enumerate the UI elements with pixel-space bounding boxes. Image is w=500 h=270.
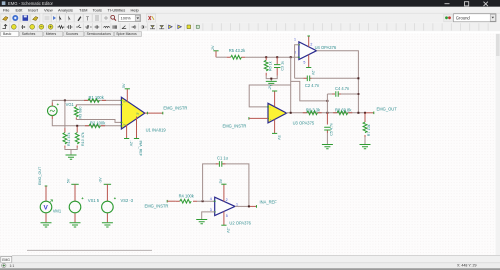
svg-text:U1 INA819: U1 INA819 [146,128,167,133]
svg-text:R1 100k: R1 100k [89,95,105,100]
svg-text:5V: 5V [219,178,223,183]
toolbar row 1 [0,13,500,22]
title bar [0,0,500,7]
U1 REF pin to INA_REF bar [134,117,139,139]
U2 V+ pin to 5V bar [221,184,226,201]
svg-text:1: 1 [236,202,238,206]
U2 V- pin to -2V bar [221,211,226,225]
svg-text:U2 OPA376: U2 OPA376 [229,221,251,226]
cursor tools [59,16,62,21]
svg-text:Sources: Sources [66,32,79,36]
ground under C5 [322,145,333,149]
svg-text:R3 680: R3 680 [78,107,82,119]
wire U2 IN+ to ground [202,212,215,220]
svg-text:R11 47k: R11 47k [67,132,71,146]
U1 V- pin to -2V bar [124,125,129,139]
node junction at C1 left [202,200,204,202]
U3 V- pin to 5V bar [272,120,277,134]
wire EMG_INSTR pin to U3 IN+ [248,117,250,120]
new icon [3,17,9,21]
wire step branch to C4 node [291,81,328,101]
wire U3 feedback loop [249,85,291,107]
svg-text:-2V: -2V [226,227,230,233]
svg-text:Meters: Meters [46,32,57,36]
svg-text:1: 1 [294,38,296,42]
resistor R5 [227,55,246,59]
wire VG1 bottom to U1 IN- [52,119,121,126]
svg-text:INA_REF: INA_REF [139,141,143,157]
op-amp U4 OPA376 [298,42,317,60]
svg-text:R2 100k: R2 100k [90,120,106,125]
node junction at feedback right [248,205,250,207]
svg-text:Ground: Ground [456,16,471,21]
svg-text:5: 5 [226,214,228,218]
wire R6 C3 to ground [266,76,277,82]
svg-text:Analysis: Analysis [58,8,73,13]
svg-text:EMG: EMG [2,258,10,262]
ground under R7 [360,145,371,149]
node junction U3 output [290,112,292,114]
voltage generator VG1 [48,103,59,120]
open icon [12,15,18,21]
svg-text:EMG_INSTR: EMG_INSTR [223,123,247,128]
resistor R6 [264,57,268,76]
resistor R4 [176,199,197,203]
svg-text:TI-Utilities: TI-Utilities [108,8,126,13]
svg-text:EMG_INSTR: EMG_INSTR [163,106,187,111]
wire U4 output down right rail [317,51,359,113]
svg-text:5V: 5V [122,83,126,88]
voltmeter VM1 [40,186,52,222]
svg-text:INA_REF: INA_REF [260,199,278,204]
svg-text:R6 1k: R6 1k [269,61,273,71]
svg-text:2V: 2V [211,45,215,50]
svg-text:File: File [3,8,10,13]
svg-text:2: 2 [310,43,312,47]
svg-text:Help: Help [131,8,140,13]
svg-text:Semiconductors: Semiconductors [87,32,112,36]
svg-text:C2 4.7n: C2 4.7n [305,83,320,88]
svg-text:View: View [44,8,53,13]
U4 V+ pin (to top rail) [308,36,310,47]
ground under VS1 [70,223,81,227]
svg-text:-3V: -3V [99,177,103,183]
svg-text:V: V [44,205,49,212]
node junction bottom wire [76,125,78,127]
ground at U2 IN+ [196,220,207,224]
capacitor C5 [324,113,330,145]
resistor R3 (gain) [74,105,121,123]
op-amp U3 OPA375 [267,103,287,123]
svg-text:R8 69.8k: R8 69.8k [335,107,352,112]
svg-text:VG1: VG1 [66,102,75,107]
U4 pin numbers [294,38,312,65]
svg-text:EMG_OUT: EMG_OUT [38,166,42,185]
wire U4 IN+ loop to C2 [295,45,299,79]
resistor R11 [63,100,67,147]
ground under R11 R10 [65,148,77,159]
svg-text:VM1: VM1 [53,208,62,213]
capacitor C2 [295,76,359,82]
svg-text:In+: In+ [123,100,127,104]
svg-text:1:1: 1:1 [10,264,15,268]
node junction C4/C5 [326,112,328,114]
svg-text:Switches: Switches [22,32,36,36]
resistor R10 [75,127,79,148]
svg-text:T&M: T&M [79,8,87,13]
svg-text:T: T [86,17,89,23]
node junction step wire [326,100,328,102]
node junction on top wire [64,99,66,101]
svg-text:Tools: Tools [93,8,102,13]
wire U1 output [145,112,163,114]
zoom icon [111,15,115,19]
svg-text:R7 10k: R7 10k [367,124,371,136]
wire R4 to U2 IN- [197,200,215,202]
svg-text:Spice Macros: Spice Macros [116,32,137,36]
resistor R9 [303,111,322,115]
voltage source VS1 [69,184,83,222]
svg-text:5: 5 [303,60,305,64]
print icon [33,17,39,21]
svg-text:R5 43.2k: R5 43.2k [229,48,246,53]
svg-text:-2V: -2V [129,141,133,147]
node junction ground stem [270,78,272,80]
svg-text:Basic: Basic [3,32,12,36]
ground selector [444,14,453,22]
resistor R8 [333,111,352,115]
node junction C3 top [276,56,278,58]
U4 V- pin to -2V bar [306,55,311,68]
svg-text:-: - [270,107,271,110]
op-amp U2 OPA376 [214,197,235,215]
wire C1 feedback loop [203,164,249,207]
svg-text:2: 2 [226,198,228,202]
wire U3 output to EMG_OUT [287,112,365,114]
svg-text:EMG_INSTR: EMG_INSTR [145,204,169,209]
status bar [0,263,500,268]
U3 V+ pin to -2V bar [272,91,277,106]
node junction C4 right [357,93,359,95]
svg-text:U3 OPA375: U3 OPA375 [293,121,315,126]
save icon [23,15,29,21]
tab row [0,31,142,36]
svg-text:-2V: -2V [268,84,272,90]
svg-text:VS2 -3: VS2 -3 [121,198,134,203]
right scrollbar [496,34,500,256]
bottom window edge [0,268,500,270]
resistor R7 [363,113,367,145]
U1 V+ pin to 5V bar [125,89,130,103]
svg-text:Edit: Edit [16,8,24,13]
ground under R6 C3 [266,81,277,85]
wire filter node down to U3 output [290,57,292,113]
node junction filter node [290,56,292,58]
wire EMG_INSTR pin to R4 [166,200,168,203]
svg-text:X: 448 Y: 29: X: 448 Y: 29 [457,264,477,268]
svg-text:C5 4.7n: C5 4.7n [330,123,334,136]
sheet tab strip [0,255,500,263]
svg-text:EMG - Schematic Editor: EMG - Schematic Editor [8,1,54,6]
node junction R6 top [265,56,267,58]
2V supply bar (filter input) [213,51,218,57]
svg-text:5V: 5V [66,178,70,183]
node junction R7 top [364,112,366,114]
wire R5 to U4 IN- [245,56,299,58]
wire C4 node vertical [326,94,328,113]
svg-text:R9 3.3k: R9 3.3k [306,107,321,112]
glyphs in first cells [3,25,8,29]
svg-text:R4 100k: R4 100k [179,193,195,198]
capacitor C3 [274,57,280,75]
cell separators drawn by JS-free dup: use path [10,23,488,30]
svg-text:100%: 100% [121,16,132,21]
wire bar to R5 [216,56,227,58]
resistor R1 [84,99,106,103]
U2 pin numbers [210,197,238,218]
grayed icons [45,16,50,20]
svg-text:C4 4.7n: C4 4.7n [335,86,350,91]
capacitor C4 [327,91,358,97]
ground under VM1 [41,223,52,227]
wire VG1 top to U1 IN+ [52,100,121,102]
menu bar [0,7,500,13]
node junction C2 right [357,77,359,79]
wire U2 output to INA_REF [235,205,249,207]
svg-text:-2V: -2V [311,69,315,75]
svg-text:EMG_OUT: EMG_OUT [377,106,398,111]
x-y icon [149,16,152,20]
svg-text:4: 4 [210,197,212,201]
capacitor C1 [216,161,226,167]
svg-text:Insert: Insert [28,8,39,13]
zoom combo [119,15,141,22]
ground under VS2 [102,223,113,227]
svg-text:VS1 5: VS1 5 [88,198,100,203]
toolbar1 button frames [1,14,156,22]
page edge line [27,249,152,251]
toolbar row 2 (component buttons) [0,23,500,32]
resistor R2 [85,124,105,128]
svg-text:R10 47k: R10 47k [81,132,85,146]
svg-text:In-: In- [123,122,126,126]
svg-text:5V: 5V [277,135,281,140]
voltage source VS2 [102,184,116,222]
svg-text:C1 1u: C1 1u [217,156,228,161]
node junction R8 right [357,112,359,114]
svg-text:C3 1u: C3 1u [280,61,284,71]
op-amp U1 INA819 [120,97,144,129]
svg-text:U4 OPA376: U4 OPA376 [315,45,337,50]
